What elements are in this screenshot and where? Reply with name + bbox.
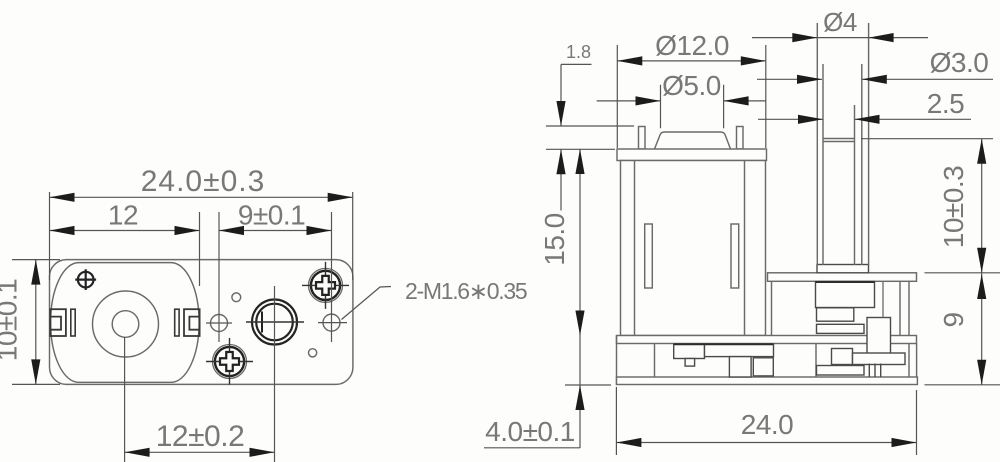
svg-text:12±0.2: 12±0.2 [156,420,245,453]
dim line 12±0.2 [125,451,275,453]
motor top flange [617,149,767,161]
tall block N4 [867,318,891,355]
motor boss circle [93,291,159,357]
4.0 arrow [575,385,584,410]
gearbox mid plate [617,336,917,344]
dim line Ø5.0 [597,100,766,102]
svg-text:10±0.1: 10±0.1 [0,279,23,361]
dim line 24.0 [50,196,353,198]
svg-text:2-M1.6∗0.35: 2-M1.6∗0.35 [405,278,527,304]
bold top edge of blocks A,B [674,343,774,345]
4.0 ext line [565,384,611,386]
ext lines Ø5.0 [661,85,724,128]
svg-text:Ø3.0: Ø3.0 [930,47,989,78]
ext line 10±0.3 top [861,138,993,140]
gear tab A [685,359,695,367]
15.0 arrows [575,149,584,174]
ext lines 12±0.2 [125,286,275,462]
base gear blocks [674,344,774,377]
24.0 arrows [616,438,641,447]
right terminal bar [175,309,179,336]
leader line 2-M1.6 [342,287,392,320]
output bearing outer [252,300,297,345]
dim line 24.0 [616,442,916,444]
Ø3.0 arrows [797,75,822,84]
output shaft lines [817,23,868,265]
dim line Ø12.0 [617,60,766,62]
ext lines 10±0.1 (body top/bottom extend left) [12,260,60,385]
bottom plate [617,377,918,385]
svg-text:15.0: 15.0 [539,213,570,266]
phillips cross S3 [220,352,239,371]
motor slots [645,224,653,288]
right column gear blocks [816,281,906,377]
block N6 [853,353,906,365]
svg-text:Ø4: Ø4 [823,7,857,37]
flat end marks [823,139,855,142]
bearing crosshair [246,321,304,323]
ext lines Ø12.0 [617,45,766,148]
dim line 10±0.3 / 9 axis [981,139,983,385]
gear block N2 [817,308,854,321]
shaft outer Ø4 [817,23,868,265]
motor can silhouette [51,263,200,383]
gear block A [674,344,705,358]
motor end cap boss [655,132,731,149]
2.5 arrows [798,115,823,124]
svg-text:9: 9 [938,312,969,327]
output shaft D-flat [261,312,263,333]
arrows side view [556,33,986,447]
4.0 text shelf [484,447,580,449]
ext line shared (top plate) [925,272,1000,274]
motor body side [621,161,766,336]
svg-text:4.0±0.1: 4.0±0.1 [485,416,575,447]
dim line 15.0 / 4.0 axis [579,149,581,448]
Ø5.0 arrows [636,96,661,105]
block C2 [753,358,773,376]
dim line Ø4 [752,37,928,39]
left terminal block [50,309,66,336]
motor terminal pins side [639,127,646,150]
flat block B [705,344,774,356]
left terminal bar [71,309,75,336]
gear block N3 [817,324,865,333]
svg-text:Ø5.0: Ø5.0 [662,70,721,101]
dim line 12 [50,230,200,232]
svg-text:9±0.1: 9±0.1 [238,200,305,231]
shaft flat line [854,105,856,265]
svg-text:1.8: 1.8 [566,42,591,62]
ext lines 1.8 [546,126,634,149]
worm shaft flange [817,265,869,273]
phillips cross S2 [316,276,335,295]
1.8 arrows [556,101,565,126]
motor shaft hole [112,311,139,338]
screw S1 small top-left [75,269,96,290]
shaft inner Ø3 [823,64,862,265]
Ø12.0 arrows [617,56,642,65]
gearbox front plate body [50,260,353,385]
svg-text:10±0.3: 10±0.3 [938,166,969,248]
svg-text:Ø12.0: Ø12.0 [655,30,729,61]
gearbox column walls [772,281,910,377]
gearbox top plate [768,273,917,282]
block N5 [832,349,853,365]
svg-text:12: 12 [108,200,138,231]
tiny hole top middle [232,293,241,302]
base left wall [617,336,655,386]
svg-text:24.0±0.3: 24.0±0.3 [141,165,266,198]
block C [729,357,751,377]
ext line 9 bottom [925,384,1000,386]
small hole right (M1.6) [323,314,340,331]
ext lines 24.0 [50,192,353,280]
gear block N1 [816,282,875,308]
1.8 lower arrow tail [560,149,562,210]
ext lines 24.0 [616,387,916,455]
block N7 [817,366,865,376]
right terminal block [184,309,200,336]
dim line 9±0.1 [219,230,332,232]
screw S2 big top-right [302,262,349,309]
Ø4 arrows [792,33,817,42]
dim line Ø3.0 [757,78,993,80]
9 arrows [977,274,986,299]
svg-text:24.0: 24.0 [741,409,794,440]
screw S3 big bottom [206,338,253,385]
10±0.3 arrows [977,139,986,164]
dim line 10±0.1 [35,260,37,385]
ext lines 9±0.1 [219,212,332,342]
svg-text:2.5: 2.5 [927,88,964,119]
base inner wall right [816,344,917,378]
output bearing inner [256,304,293,341]
ext line 12 right [199,212,201,286]
1.8 leader shelf [561,64,592,126]
small hole left (M1.6) [211,315,228,332]
dim line 2.5 [758,118,971,120]
crosshairs of small holes [206,322,347,324]
short shaft lines N8 [869,364,880,378]
arrows front view [31,193,353,457]
tiny hole bottom right [309,349,317,357]
